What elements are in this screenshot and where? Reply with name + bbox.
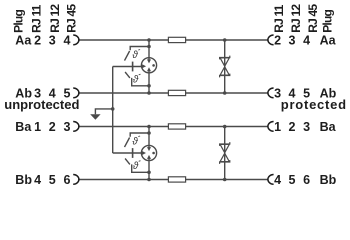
svg-text:2: 2 — [289, 120, 296, 134]
svg-text:3: 3 — [289, 34, 296, 48]
svg-text:4: 4 — [64, 34, 71, 48]
svg-text:ϑ: ϑ — [133, 75, 139, 86]
F1 contact bar — [132, 62, 134, 72]
junction node F2 lower tap — [147, 171, 151, 175]
connector socket Bb right — [268, 175, 274, 185]
svg-text:Bb: Bb — [320, 173, 337, 187]
junction node Ab/diode — [223, 91, 227, 95]
junction node Bb/diode — [223, 178, 227, 182]
svg-text:3: 3 — [64, 120, 71, 134]
junction node Ba/diode — [223, 125, 227, 129]
svg-text:6: 6 — [64, 173, 71, 187]
ground tap wire — [95, 109, 112, 114]
svg-text:Ba: Ba — [15, 120, 32, 134]
wire arrester branch vertical Ba-Bb — [148, 127, 150, 180]
connector socket Ab left — [73, 88, 79, 98]
svg-text:2: 2 — [274, 34, 281, 48]
connector socket Aa left — [73, 35, 79, 45]
connector socket Ba left — [73, 122, 79, 132]
F2 thermal switch S3 blade — [125, 138, 130, 148]
F2 ground electrode wire — [113, 152, 143, 154]
resistor R2 (Ab line) — [168, 90, 185, 95]
suppressor diode V2 (bidirectional, Ba/Bb) — [220, 142, 230, 164]
svg-text:4: 4 — [303, 34, 310, 48]
junction node F2 upper tap — [147, 131, 151, 135]
resistor R1 (Aa line) — [168, 37, 185, 42]
junction node Ba/arrester — [147, 125, 151, 129]
wire Aa horizontal — [78, 39, 268, 41]
wire ground bus vertical — [112, 67, 114, 154]
gas discharge tube F2 (3-electrode arrester, Ba/Bb) — [141, 145, 156, 160]
svg-text:4: 4 — [274, 173, 281, 187]
svg-text:4: 4 — [34, 173, 41, 187]
junction node Ab/arrester — [147, 91, 151, 95]
svg-text:RJ 11: RJ 11 — [30, 4, 44, 32]
svg-text:RJ 12: RJ 12 — [289, 4, 303, 33]
svg-text:unprotected: unprotected — [4, 97, 79, 112]
svg-text:RJ 12: RJ 12 — [48, 4, 62, 33]
F1 upper tap wire — [130, 47, 149, 51]
svg-text:5: 5 — [289, 173, 296, 187]
svg-text:ϑ: ϑ — [132, 50, 138, 61]
junction node Aa/diode — [223, 38, 227, 42]
svg-text:Ba: Ba — [320, 120, 337, 134]
svg-text:3: 3 — [49, 34, 56, 48]
F1 lower tap wire — [132, 78, 149, 86]
svg-text:6: 6 — [303, 173, 310, 187]
svg-text:Plug: Plug — [12, 10, 26, 33]
svg-text:protected: protected — [281, 97, 347, 112]
svg-text:2: 2 — [34, 34, 41, 48]
junction node F1 lower tap — [147, 84, 151, 88]
gas discharge tube F1 (3-electrode arrester, Aa/Ab) — [141, 58, 156, 73]
connector socket Ba right — [268, 122, 274, 132]
junction node F1 upper tap — [147, 45, 151, 49]
junction node Aa/arrester — [147, 38, 151, 42]
svg-text:ϑ: ϑ — [132, 136, 138, 147]
svg-text:1: 1 — [274, 120, 281, 134]
F2 upper tap wire — [130, 133, 149, 137]
F2 thermal switch S4 blade — [125, 159, 130, 165]
wire arrester branch vertical Aa-Ab — [148, 40, 150, 93]
resistor R4 (Bb line) — [168, 177, 185, 182]
ground symbol — [90, 114, 100, 120]
svg-text:RJ 11: RJ 11 — [272, 4, 286, 32]
svg-text:RJ 45: RJ 45 — [65, 4, 79, 33]
F2 lower tap wire — [132, 164, 149, 172]
suppressor diode V1 (bidirectional, Aa/Ab) — [220, 56, 230, 78]
junction node Bb/arrester — [147, 178, 151, 182]
svg-text:5: 5 — [49, 173, 56, 187]
connector socket Bb left — [73, 175, 79, 185]
wire Ba horizontal — [78, 126, 268, 128]
svg-text:1: 1 — [34, 120, 41, 134]
connector socket Ab right — [268, 88, 274, 98]
F2 contact bar — [132, 148, 134, 158]
F1 thermal switch S1 blade — [125, 51, 130, 61]
F1 thermal switch S2 blade — [125, 72, 130, 78]
wire Bb horizontal — [78, 179, 268, 181]
svg-text:3: 3 — [303, 120, 310, 134]
svg-text:Plug: Plug — [321, 10, 335, 33]
connector socket Aa right — [268, 35, 274, 45]
F1 ground electrode wire — [113, 66, 143, 68]
wire diode branch vertical Ba-Bb — [224, 127, 226, 180]
svg-text:Aa: Aa — [320, 34, 337, 48]
junction node ground tap — [111, 107, 115, 111]
resistor R3 (Ba line) — [168, 124, 185, 129]
svg-text:2: 2 — [49, 120, 56, 134]
svg-text:RJ 45: RJ 45 — [306, 4, 320, 33]
wire Ab horizontal — [78, 92, 268, 94]
svg-text:ϑ: ϑ — [133, 161, 139, 172]
svg-text:Aa: Aa — [15, 34, 32, 48]
svg-text:Bb: Bb — [15, 173, 32, 187]
wire diode branch vertical Aa-Ab — [224, 40, 226, 93]
